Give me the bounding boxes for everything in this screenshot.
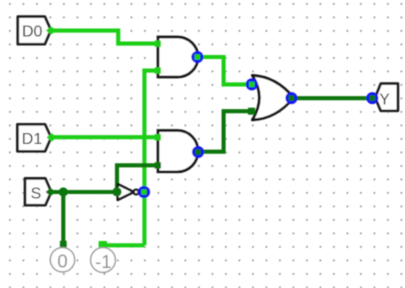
wire constant -1 to vertical net (high) (103, 243, 144, 247)
pin square constant 0 (low) (60, 241, 67, 248)
wire U4 output to output Y (low) (291, 96, 372, 100)
node U4 output (low) (285, 92, 297, 104)
pin square constant -1 (high) (99, 241, 107, 248)
junction node S before NOT gate (112, 187, 121, 196)
wire node S down to constant 0 (low) (61, 192, 65, 244)
pin square U2 input A (high) (155, 134, 161, 140)
pin square U2 input B (low) (155, 162, 161, 168)
pin square U4 input B (low) (248, 108, 255, 115)
AND gate U2 (158, 131, 198, 172)
wire D0 output to U1 input A (high) (51, 31, 158, 44)
node U3 output (high) (138, 186, 150, 198)
input S (25, 178, 51, 205)
OR gate U4 (252, 75, 293, 120)
node U1 output (high) (191, 51, 203, 63)
input D1 (17, 124, 51, 151)
wire S output to NOT gate U3 input (low) (51, 190, 118, 194)
junction node S at wire split (59, 187, 68, 196)
svg-text:D0: D0 (22, 24, 43, 41)
wire U1 output to OR gate U4 input A (high) (198, 57, 253, 84)
svg-text:D1: D1 (22, 131, 43, 148)
NOT gate U3 (118, 184, 139, 200)
pin square U1 input B (high) (155, 67, 161, 73)
svg-text:0: 0 (57, 251, 67, 272)
node output Y input (low) (366, 92, 378, 104)
constant -1 (91, 248, 116, 273)
svg-text:Y: Y (379, 91, 389, 108)
wire U3 output net vertical to U1 input B (high) (144, 71, 157, 246)
node U4 input A (high) (246, 78, 258, 90)
constant 0 (50, 248, 74, 272)
wire U2 output to OR gate U4 input B (low) (198, 111, 253, 152)
svg-text:-1: -1 (95, 251, 111, 272)
input D0 (18, 17, 51, 45)
pin square U1 input A (high) (155, 41, 161, 47)
node U2 output (low) (192, 146, 204, 158)
pin diamond S (low) (46, 188, 56, 197)
wire D1 output to U2 input A (high) (51, 135, 158, 139)
wire node S up to U2 input B (low) (117, 165, 158, 192)
pin diamond D1 (high) (47, 133, 57, 142)
AND gate U1 (158, 37, 198, 77)
output Y (375, 84, 398, 111)
pin diamond D0 (high) (46, 26, 56, 35)
svg-text:S: S (31, 185, 42, 202)
